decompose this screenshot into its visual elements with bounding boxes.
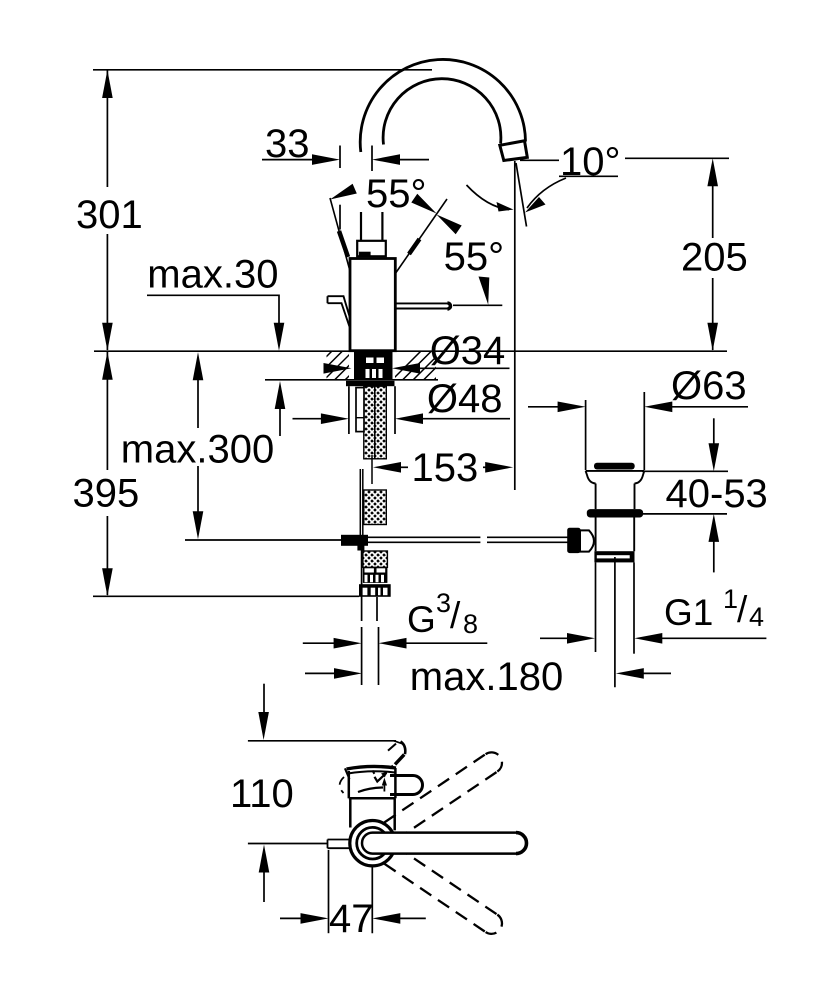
handle left swung <box>328 296 351 327</box>
dim 47 <box>280 850 426 933</box>
hose line lower <box>361 550 363 597</box>
dim 110 bottom line <box>248 843 327 845</box>
max.30 lower arrow line <box>279 408 281 436</box>
body seam dash <box>358 788 383 793</box>
dim 301 line <box>106 70 108 187</box>
pull rod top view <box>328 840 351 849</box>
dim 40-53 <box>641 418 728 572</box>
mounting ring <box>350 821 395 866</box>
mounting nut <box>359 584 391 597</box>
svg-text:3: 3 <box>436 588 451 618</box>
dim 205 <box>712 186 714 350</box>
lever mark in neck <box>359 252 371 257</box>
dim max.180 <box>305 672 671 674</box>
Ø48 extension lines <box>349 386 395 434</box>
pull rod clamp <box>341 535 368 546</box>
dashed spout top view <box>388 742 405 769</box>
flow arrow <box>375 773 387 782</box>
dashed handle lower <box>384 846 506 938</box>
55 lower leader arrow <box>479 277 490 305</box>
svg-text:4: 4 <box>749 602 764 632</box>
55 bowtie arrowheads <box>411 194 461 235</box>
pull rod socket <box>580 530 594 551</box>
threaded shank mid <box>364 490 387 525</box>
dim Ø48 <box>293 418 511 420</box>
svg-text:max.180: max.180 <box>410 655 563 699</box>
55 left arrowhead <box>330 184 357 200</box>
svg-text:Ø34: Ø34 <box>430 329 506 373</box>
cartridge top view <box>345 766 396 798</box>
drain flange <box>586 471 645 509</box>
arrow max.300 bottom <box>193 511 204 539</box>
drain body <box>596 518 635 552</box>
dim 110 arrows <box>263 684 265 713</box>
outlet capsule <box>390 776 423 795</box>
counter hatch right <box>387 325 489 385</box>
svg-text:40-53: 40-53 <box>666 472 768 516</box>
55 deg right leg line <box>395 199 447 274</box>
arrow 301 bottom <box>102 323 113 351</box>
threaded shank upper <box>364 386 387 459</box>
dim max.30 leader <box>147 295 279 341</box>
handle lever right <box>396 303 451 309</box>
spout tube verticals <box>361 212 382 241</box>
pull rod knob <box>567 528 580 553</box>
svg-text:33: 33 <box>265 122 310 166</box>
arrow 395 bottom <box>102 568 113 596</box>
handle solid top view <box>362 833 526 854</box>
10 deg tilted stream line <box>516 163 527 227</box>
faucet axis line <box>371 455 373 484</box>
svg-text:10°: 10° <box>560 140 621 184</box>
arrow 395 top <box>102 352 113 380</box>
55 deg right thick dash <box>409 239 420 254</box>
dim 110 top line <box>248 740 396 742</box>
55 deg left thick dash <box>339 231 348 257</box>
svg-text:max.30: max.30 <box>147 253 278 297</box>
neck cap <box>357 241 386 256</box>
svg-text:Ø63: Ø63 <box>671 364 747 408</box>
drain tailpipe <box>596 557 635 687</box>
svg-text:/: / <box>737 589 748 630</box>
pull rod horizontal <box>368 537 569 542</box>
svg-text:G: G <box>407 599 436 640</box>
arrow 301 top <box>102 70 113 98</box>
svg-text:Ø48: Ø48 <box>427 377 503 421</box>
10 deg arcs <box>467 185 510 210</box>
svg-text:47: 47 <box>329 897 374 941</box>
55 deg left leg line <box>330 198 350 271</box>
svg-text:301: 301 <box>76 193 143 237</box>
lever extension line <box>453 304 502 306</box>
hose reference line <box>185 539 341 541</box>
threaded shank lower + nut <box>359 551 391 597</box>
dashed handle upper <box>384 748 506 840</box>
svg-text:55°: 55° <box>444 235 505 279</box>
10 deg leader lines <box>467 158 730 209</box>
aerator <box>500 141 528 161</box>
arrowhead on vertical line <box>497 202 514 212</box>
svg-text:max.300: max.300 <box>121 427 274 471</box>
dim 395 line <box>106 352 108 470</box>
svg-text:1: 1 <box>723 584 738 614</box>
arrow max.30 lower <box>275 381 286 409</box>
faucet body <box>350 259 395 351</box>
spout outer arc <box>360 59 525 152</box>
dim 153 <box>399 466 487 468</box>
dim G3/8 arrows <box>303 642 488 644</box>
washer under counter <box>346 381 395 386</box>
dim G1 1/4 <box>540 637 766 639</box>
drain seal ring <box>587 509 643 517</box>
svg-text:G1: G1 <box>664 592 713 633</box>
counter bottom line <box>265 379 438 381</box>
svg-text:205: 205 <box>681 236 748 280</box>
dim 33 <box>262 146 429 230</box>
drain bottom band <box>594 551 634 562</box>
dim max.300 line <box>197 379 199 428</box>
G3/8 pipe <box>362 597 377 621</box>
counter top line <box>94 350 727 352</box>
G3/8 extension lines <box>362 627 379 685</box>
counter hatch left <box>298 325 411 385</box>
bottom reference line <box>93 595 359 597</box>
arrow max.30 <box>274 323 285 351</box>
dim Ø63 <box>528 392 748 470</box>
svg-text:153: 153 <box>412 446 479 490</box>
supply hose <box>360 469 363 535</box>
swivel dashed arc left <box>340 777 344 793</box>
vertical reference from spout tip <box>515 161 527 490</box>
spout inner arc <box>383 79 501 145</box>
svg-text:395: 395 <box>73 472 140 516</box>
svg-text:/: / <box>450 595 461 636</box>
dim Ø34 <box>327 367 509 369</box>
drain plug top bar <box>594 463 635 470</box>
mid body top view <box>349 798 396 830</box>
svg-text:8: 8 <box>463 609 478 639</box>
arrowhead on tilted line <box>525 197 546 213</box>
top reference line <box>93 69 432 71</box>
shank through counter <box>354 351 393 380</box>
arrow max.300 top <box>193 352 204 380</box>
svg-text:110: 110 <box>230 772 294 816</box>
spacer rect <box>356 388 364 432</box>
